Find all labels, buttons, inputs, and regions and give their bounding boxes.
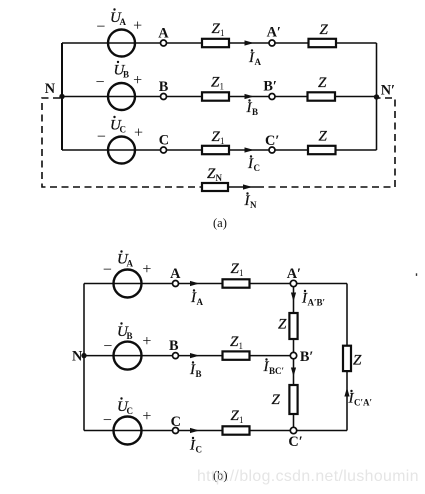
svg-text:N′: N′	[381, 83, 395, 99]
svg-text:http://blog.csdn.net/lushoumin: http://blog.csdn.net/lushoumin	[197, 468, 419, 485]
svg-text:A′: A′	[267, 25, 281, 41]
svg-text:A′: A′	[287, 266, 301, 282]
svg-text:1: 1	[220, 82, 225, 92]
svg-text:−: −	[103, 412, 112, 429]
svg-text:B: B	[252, 107, 258, 117]
svg-text:−: −	[103, 262, 112, 279]
svg-text:Z: Z	[353, 353, 362, 369]
svg-text:B: B	[169, 338, 179, 354]
svg-text:B′: B′	[263, 78, 277, 94]
svg-text:+: +	[134, 125, 143, 142]
svg-text:N: N	[216, 173, 223, 183]
svg-text:C: C	[196, 445, 203, 455]
svg-text:1: 1	[239, 268, 244, 278]
svg-text:Z: Z	[278, 317, 287, 333]
svg-text:BC′: BC′	[269, 366, 284, 376]
svg-text:+: +	[142, 408, 151, 425]
svg-text:A: A	[120, 17, 127, 27]
svg-text:N: N	[45, 81, 56, 97]
svg-text:A: A	[170, 266, 181, 282]
svg-text:B: B	[127, 331, 133, 341]
svg-text:N: N	[72, 349, 83, 365]
svg-text:(a): (a)	[213, 216, 227, 230]
svg-text:1: 1	[239, 415, 244, 425]
svg-text:1: 1	[220, 28, 225, 38]
svg-text:C′: C′	[265, 133, 279, 149]
svg-text:+: +	[142, 333, 151, 350]
svg-text:1: 1	[239, 341, 244, 351]
svg-text:A: A	[158, 25, 169, 41]
svg-text:+: +	[133, 72, 142, 89]
svg-text:Z: Z	[319, 129, 328, 145]
svg-text:+: +	[142, 261, 151, 278]
svg-text:C: C	[127, 406, 134, 416]
svg-text:−: −	[96, 74, 105, 91]
svg-text:C: C	[120, 125, 127, 135]
svg-text:A: A	[197, 297, 204, 307]
svg-text:Z: Z	[272, 392, 281, 408]
svg-text:C′: C′	[288, 434, 302, 450]
svg-text:−: −	[97, 128, 106, 145]
svg-text:Z: Z	[320, 22, 329, 38]
svg-text:B′: B′	[300, 349, 314, 365]
svg-text:A: A	[255, 57, 262, 67]
svg-text:C′A′: C′A′	[354, 398, 372, 408]
svg-text:A: A	[127, 259, 134, 269]
svg-text:B: B	[123, 70, 129, 80]
svg-text:−: −	[96, 19, 105, 36]
svg-text:1: 1	[220, 136, 225, 146]
svg-text:+: +	[133, 18, 142, 35]
svg-text:N: N	[250, 200, 257, 210]
svg-text:B: B	[159, 79, 169, 95]
svg-text:Z: Z	[318, 75, 327, 91]
svg-text:−: −	[103, 338, 112, 355]
svg-text:A′B′: A′B′	[308, 298, 326, 308]
svg-text:C: C	[254, 163, 261, 173]
svg-text:C: C	[171, 414, 181, 430]
svg-text:B: B	[196, 369, 202, 379]
svg-text:C: C	[159, 133, 169, 149]
